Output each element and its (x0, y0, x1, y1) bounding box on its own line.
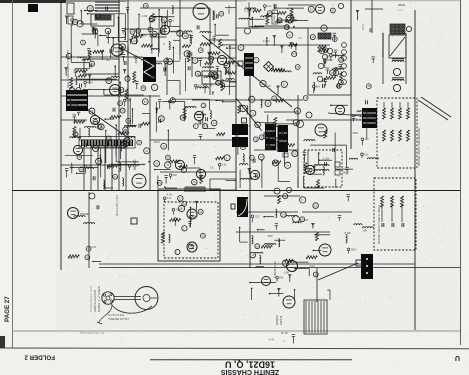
svg-text:2.2M: 2.2M (207, 84, 213, 87)
svg-text:4.7K: 4.7K (166, 192, 172, 196)
svg-text:6CB6A: 6CB6A (126, 45, 130, 55)
svg-text:18K: 18K (304, 219, 309, 222)
svg-text:470K: 470K (141, 58, 148, 62)
svg-text:2.2M: 2.2M (141, 14, 148, 18)
svg-text:1.2K: 1.2K (150, 64, 155, 67)
svg-text:3.3K: 3.3K (91, 245, 97, 249)
svg-text:16D21, Q, U: 16D21, Q, U (225, 359, 275, 369)
svg-text:120: 120 (244, 8, 249, 12)
svg-text:1.5: 1.5 (298, 37, 302, 40)
svg-text:PHOTOFACT: PHOTOFACT (80, 332, 95, 335)
svg-text:PART OF PRINTED CIRCUIT: PART OF PRINTED CIRCUIT (261, 119, 264, 150)
svg-text:100: 100 (105, 59, 110, 62)
svg-text:6DQ6A: 6DQ6A (275, 315, 279, 325)
svg-text:(PLG-1M17) C107: (PLG-1M17) C107 (115, 194, 119, 216)
svg-text:TRANSFORMER, VERT: TRANSFORMER, VERT (90, 285, 93, 312)
svg-text:18K: 18K (363, 229, 368, 232)
svg-text:U: U (455, 354, 460, 361)
svg-text:R207: R207 (87, 81, 94, 84)
svg-text:1K: 1K (210, 165, 214, 169)
svg-text:SI CAP OF E12: SI CAP OF E12 (108, 314, 125, 317)
svg-text:TWEETER OUTPUT: TWEETER OUTPUT (108, 319, 130, 321)
svg-text:6.8K: 6.8K (284, 271, 289, 274)
svg-text:PAGE 27: PAGE 27 (4, 296, 11, 322)
svg-text:MODEL Q, U TUNER: MODEL Q, U TUNER (97, 286, 101, 312)
svg-text:.0047: .0047 (175, 209, 182, 212)
svg-text:12CU6: 12CU6 (279, 315, 283, 325)
svg-text:255V: 255V (327, 59, 333, 62)
svg-text:255V: 255V (352, 132, 358, 135)
svg-text:18K: 18K (88, 165, 93, 168)
svg-text:100: 100 (364, 153, 369, 156)
svg-text:ZENITH CHASSIS: ZENITH CHASSIS (93, 290, 97, 312)
svg-text:82K: 82K (268, 234, 273, 238)
svg-text:6BW8: 6BW8 (398, 3, 406, 7)
svg-text:2.2M: 2.2M (263, 39, 270, 43)
svg-text:C12: C12 (167, 197, 172, 200)
svg-text:+: + (243, 119, 245, 123)
svg-text:100: 100 (313, 169, 318, 172)
svg-text:PRINTED CIRCUIT USED IN 16D21Q: PRINTED CIRCUIT USED IN 16D21Q (379, 205, 381, 244)
svg-text:8.2K: 8.2K (356, 117, 362, 121)
svg-text:C12: C12 (267, 5, 272, 8)
svg-text:4.7K: 4.7K (269, 338, 275, 342)
svg-text:.0047: .0047 (153, 140, 160, 144)
svg-text:22K: 22K (109, 49, 114, 53)
svg-text:390: 390 (212, 72, 217, 76)
svg-text:255V: 255V (351, 248, 357, 251)
svg-text:44.7: 44.7 (398, 9, 403, 12)
svg-text:6BL8A: 6BL8A (227, 5, 231, 14)
svg-text:2.2M: 2.2M (323, 156, 330, 160)
svg-text:.022: .022 (254, 215, 259, 218)
svg-text:22K: 22K (279, 277, 284, 280)
svg-text:C12: C12 (309, 264, 315, 268)
svg-text:.0047: .0047 (342, 171, 350, 175)
svg-text:FOLDER 2: FOLDER 2 (24, 354, 55, 361)
svg-text:1.5: 1.5 (177, 218, 181, 221)
svg-text:SET 412: SET 412 (95, 332, 105, 335)
svg-text:6.8K: 6.8K (345, 231, 351, 235)
svg-text:EXTERNAL SPEAKER: EXTERNAL SPEAKER (382, 32, 385, 57)
svg-text:277V: 277V (361, 24, 365, 30)
svg-text:33K: 33K (173, 174, 178, 177)
svg-text:THERMISTOR: THERMISTOR (273, 261, 277, 278)
svg-text:3.3K: 3.3K (222, 164, 227, 167)
svg-text:22K: 22K (266, 84, 271, 88)
svg-text:.0047: .0047 (131, 165, 138, 168)
svg-text:82K: 82K (316, 85, 321, 88)
svg-text:220K: 220K (326, 54, 332, 58)
svg-text:390: 390 (127, 99, 132, 102)
svg-text:680: 680 (193, 216, 198, 219)
svg-text:ZENITH CHASSIS: ZENITH CHASSIS (221, 368, 280, 375)
svg-text:PRINTED CIRCUIT SIDE MOUNTED: PRINTED CIRCUIT SIDE MOUNTED (419, 127, 421, 166)
